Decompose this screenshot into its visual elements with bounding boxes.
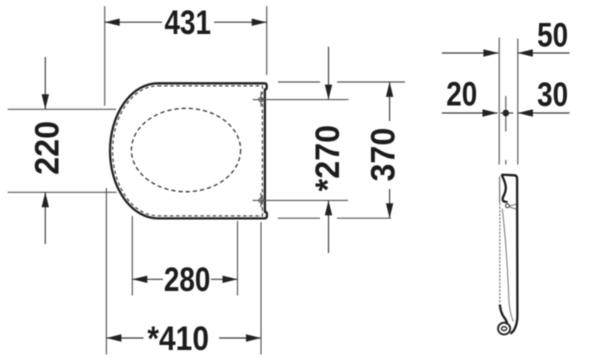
svg-text:220: 220: [29, 121, 67, 175]
side profile top and right edge: [502, 175, 518, 334]
side profile wedge line lower: [509, 207, 516, 210]
bumper inner: [502, 327, 507, 331]
dimension 431 extension lines: [105, 6, 267, 106]
side view extension line 2 (right face): [517, 39, 519, 165]
dimension 20 line and arrow: [442, 112, 513, 114]
svg-text:431: 431: [165, 3, 212, 41]
dimension 431 line and arrows: [105, 21, 267, 23]
svg-text:370: 370: [365, 128, 403, 182]
side profile foot curve: [500, 305, 508, 325]
dimension *410 extension lines: [106, 188, 261, 355]
dimension 220 line and arrows: [44, 57, 46, 244]
svg-text:*410: *410: [147, 319, 209, 357]
dimension 370 line and arrows: [389, 82, 391, 218]
side profile inner taper line: [502, 209, 513, 322]
seat opening ellipse (dashed): [131, 108, 240, 191]
hinge hole top: [259, 92, 263, 107]
dimension *270 extension lines (hinge centre lines): [253, 100, 349, 201]
side profile hinge hook: [502, 175, 508, 202]
side view extension line 1 (left face): [498, 38, 500, 165]
hinge hole bottom: [259, 193, 263, 208]
dimension 280 line and arrows: [132, 278, 237, 280]
dimension *410 line and arrows: [106, 337, 261, 339]
svg-text:30: 30: [537, 75, 568, 113]
seat outline (top view): [110, 83, 267, 218]
side profile pivot circle: [506, 204, 510, 208]
side view hinge axis line: [505, 96, 507, 165]
dimension *270 line and arrows: [328, 47, 330, 253]
side profile left face (dashed): [499, 203, 501, 304]
svg-text:20: 20: [446, 75, 477, 113]
svg-text:280: 280: [164, 261, 211, 299]
side profile wedge line upper: [509, 204, 516, 206]
svg-text:50: 50: [537, 16, 568, 54]
hinge axis dot: [503, 110, 510, 117]
dimension 220 extension lines: [8, 109, 117, 192]
dimension 370 extension lines: [278, 82, 405, 218]
dimension 30 line and arrow: [518, 112, 570, 114]
svg-text:*270: *270: [309, 125, 347, 191]
dimension 50 line and arrows: [442, 52, 570, 54]
dimension 280 extension lines: [132, 216, 237, 296]
side profile left face line: [499, 177, 501, 203]
seat inner contour (dashed): [113, 86, 263, 216]
bumper outer: [498, 323, 510, 335]
